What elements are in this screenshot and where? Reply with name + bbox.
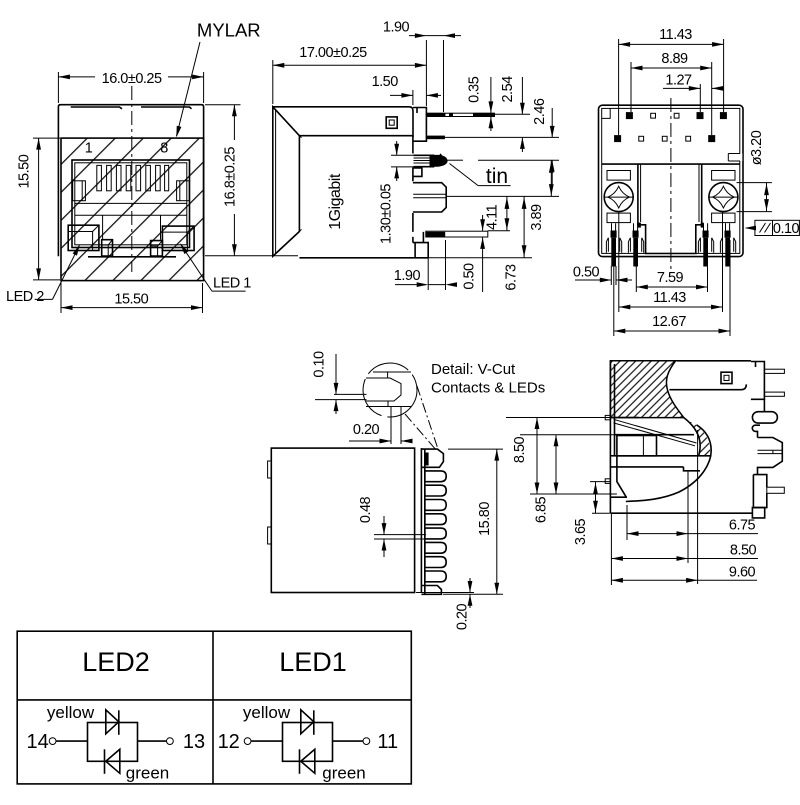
contact body [366, 378, 401, 401]
dim 1.90 bottom [395, 240, 446, 290]
center notch cube right [151, 241, 163, 256]
dim 6.75 [627, 471, 758, 563]
pads row 2 [614, 135, 715, 142]
window square [721, 372, 732, 383]
svg-text:11.43: 11.43 [659, 27, 692, 43]
dim 8.50 left [506, 418, 617, 495]
svg-text:0.48: 0.48 [358, 496, 374, 523]
svg-text:15.50: 15.50 [17, 154, 33, 188]
svg-text:MYLAR: MYLAR [197, 20, 261, 41]
latch circle left [607, 171, 630, 181]
svg-text:0.10: 0.10 [773, 221, 800, 237]
body [271, 448, 414, 592]
branch box [283, 723, 333, 762]
yellow diode [106, 710, 119, 734]
svg-text:11.43: 11.43 [653, 290, 686, 306]
zone divider [602, 163, 740, 165]
outer curve wall [626, 425, 711, 502]
hatched wall patch [685, 418, 711, 455]
SIDE VIEW [273, 20, 559, 293]
plastic post right [758, 438, 783, 475]
svg-text:1.90: 1.90 [383, 20, 410, 36]
left bump top [268, 461, 272, 478]
right wall notch [728, 154, 742, 162]
svg-text:Detail: V-Cut: Detail: V-Cut [431, 361, 516, 378]
left bump bottom [268, 527, 272, 544]
outer body [599, 105, 744, 256]
latch circle right [712, 171, 735, 181]
bottom right foot [413, 232, 428, 258]
svg-text:LED2: LED2 [82, 647, 150, 677]
svg-text:yellow: yellow [47, 703, 95, 722]
REAR VIEW [268, 448, 503, 630]
dim 15.50 left [33, 138, 60, 280]
svg-text:12.67: 12.67 [652, 314, 686, 330]
svg-text:13: 13 [183, 731, 205, 753]
left tabs [605, 415, 610, 419]
dim 3.65 [590, 482, 610, 514]
svg-text:green: green [322, 764, 365, 783]
leader dash-dot lines to comb [417, 386, 438, 449]
hatched cut region top-left [610, 361, 683, 418]
svg-text:1.27: 1.27 [665, 73, 692, 89]
svg-text:0.20: 0.20 [353, 422, 380, 438]
BOTTOM VIEW [573, 27, 800, 336]
LED TABLE [17, 631, 411, 784]
svg-text:Contacts & LEDs: Contacts & LEDs [431, 380, 545, 397]
right LED pocket [162, 226, 194, 250]
svg-text:0.50: 0.50 [573, 265, 600, 281]
left LED pocket [68, 225, 99, 250]
svg-text:8.50: 8.50 [512, 436, 528, 463]
tin blob [430, 155, 448, 167]
pcb tab top right [413, 108, 427, 142]
svg-text:1Gigabit: 1Gigabit [327, 173, 344, 230]
comb base wall [420, 448, 422, 592]
svg-text:LED 2: LED 2 [6, 289, 44, 305]
dim 0.10 [335, 354, 337, 414]
hook below pill [752, 425, 760, 437]
pcb tab right [751, 362, 765, 400]
flange outer body [58, 105, 203, 257]
wire [138, 740, 167, 742]
dim 12.67 [614, 240, 730, 336]
svg-text:0.20: 0.20 [455, 603, 471, 630]
contact slots x8 [97, 165, 169, 190]
contact comb top cap [421, 449, 443, 467]
svg-text:12: 12 [218, 731, 240, 753]
svg-text:8.89: 8.89 [661, 51, 688, 67]
dim 0.35 [490, 77, 492, 131]
center notch cube left [102, 240, 113, 256]
dim 0.20 rear bottom [416, 578, 474, 608]
svg-text:1: 1 [85, 141, 93, 157]
comb fingers x8 [425, 471, 446, 582]
pin 2 hollow [764, 392, 784, 396]
dim 11.43 bottom [619, 212, 723, 312]
ext line pin3 top [488, 230, 510, 232]
dim 9.60 [611, 430, 757, 584]
parallelism tolerance box 0.10 [746, 220, 799, 235]
svg-text:2.54: 2.54 [500, 76, 516, 103]
pin 1 hollow [764, 369, 784, 373]
mylar notch left [71, 107, 122, 109]
pin towers [606, 223, 735, 266]
right edge segments [412, 136, 414, 243]
svg-text:0.50: 0.50 [462, 263, 478, 290]
svg-text:1.90: 1.90 [394, 268, 421, 284]
body outline [273, 107, 413, 137]
light pipe diagonal band [614, 419, 697, 443]
window square [386, 117, 397, 128]
DETAIL VIEW [312, 351, 546, 451]
svg-text:7.59: 7.59 [657, 270, 684, 286]
svg-text:2.46: 2.46 [532, 98, 548, 125]
dim 0.20 [349, 407, 410, 445]
dim ø3.20 [737, 183, 772, 212]
dim 0.50 bottom [575, 266, 632, 285]
dim 1.50 [390, 90, 441, 105]
pin 1 [426, 113, 494, 116]
dim 2.46 [445, 108, 560, 184]
wire [333, 740, 364, 742]
green diode [106, 749, 120, 773]
corner notch top-left [602, 108, 611, 118]
wire [56, 740, 88, 742]
svg-text:8: 8 [160, 141, 168, 157]
edge below tab [763, 399, 765, 411]
mid reference line [446, 195, 559, 197]
svg-text:ø3.20: ø3.20 [749, 130, 765, 165]
dim 8.50 bottom [611, 513, 758, 585]
bottom chord [366, 406, 411, 408]
cavity outer [72, 160, 190, 248]
step below tin [413, 168, 422, 176]
interior box [617, 436, 657, 456]
svg-text:8.50: 8.50 [730, 543, 757, 559]
dim 3.89 [550, 160, 552, 196]
green diode [301, 749, 315, 773]
central cavity [638, 164, 702, 253]
bottom peg [752, 508, 764, 518]
dim 8.89 [631, 62, 712, 135]
body outline [610, 361, 752, 513]
comb bottom cap [421, 586, 441, 595]
svg-text:yellow: yellow [243, 703, 291, 722]
dim 6.73 [428, 196, 532, 257]
cavity bottom thick line [88, 256, 176, 258]
svg-text:17.00±0.25: 17.00±0.25 [299, 45, 367, 61]
svg-text:green: green [126, 764, 169, 783]
dim 15.50 bottom [61, 283, 203, 313]
left latch window [73, 181, 86, 201]
svg-text:16.8±0.25: 16.8±0.25 [223, 147, 239, 207]
detail circle [363, 363, 417, 417]
mylar notch right [141, 107, 192, 109]
svg-text:3.65: 3.65 [573, 518, 589, 545]
dim 11.43 top [619, 39, 724, 135]
contact section top chord [373, 371, 411, 373]
right foot and pin [753, 475, 766, 508]
lower cavity walls [102, 215, 104, 240]
top plate bottom edge [669, 384, 746, 389]
left inner profile to foot [610, 456, 627, 497]
dim 4.11 [506, 196, 508, 230]
table frame [17, 631, 411, 784]
centerline [131, 86, 133, 272]
dim 1.30±0.05 (tin thickness) [391, 141, 414, 181]
svg-text:14: 14 [26, 731, 48, 753]
svg-text:6.73: 6.73 [504, 264, 520, 291]
LED2 circuit [26, 703, 205, 783]
shelf lines [75, 202, 187, 204]
svg-text:3.89: 3.89 [529, 204, 545, 231]
interior shelf lines [610, 417, 638, 419]
centerline [670, 98, 672, 272]
pin 2 [426, 136, 445, 140]
svg-text:LED1: LED1 [279, 647, 347, 677]
body bottom [299, 257, 428, 259]
dim 7.59 [636, 266, 707, 292]
svg-text:0.10: 0.10 [312, 351, 328, 378]
dim 0.48 [374, 516, 426, 557]
SECTION VIEW [506, 361, 784, 585]
pads row 1 [626, 112, 727, 119]
bezel hatched face [61, 138, 204, 281]
0.10 reference lines [334, 393, 367, 395]
dim 16.8±0.25 [205, 105, 298, 256]
svg-text:11: 11 [377, 731, 398, 753]
LED1 circuit [218, 703, 399, 783]
dim 2.54 [495, 77, 531, 152]
cavity inner [75, 163, 187, 245]
tin contact pill (stadium) [752, 412, 777, 423]
plastic post trapezoid [413, 183, 446, 212]
svg-text:LED 1: LED 1 [213, 276, 251, 292]
dim 16.0±0.25 [58, 72, 203, 103]
svg-text:4.11: 4.11 [484, 204, 500, 230]
svg-text:15.50: 15.50 [114, 292, 148, 308]
dim 1.27 [663, 84, 724, 112]
dim 1.90 top [409, 36, 461, 112]
svg-text:tin: tin [486, 165, 508, 188]
dim 0.50 (pin thickness) [482, 215, 484, 292]
branch box [88, 723, 138, 762]
dim 17.00±0.25 [273, 40, 427, 106]
flange bottom line [299, 135, 413, 137]
pin 3 hollow [426, 231, 488, 237]
svg-text:0.35: 0.35 [467, 76, 483, 103]
tin contact [414, 155, 434, 166]
wire [251, 740, 283, 742]
svg-text:16.0±0.25: 16.0±0.25 [102, 71, 162, 87]
right latch window [177, 181, 190, 201]
svg-text:6.85: 6.85 [534, 496, 550, 523]
svg-text:1.30±0.05: 1.30±0.05 [379, 184, 395, 244]
inner S-curve wall [684, 418, 700, 456]
dim 15.80 [443, 449, 503, 594]
svg-text:15.80: 15.80 [477, 502, 493, 536]
svg-text:9.60: 9.60 [729, 564, 756, 580]
svg-text:1.50: 1.50 [372, 74, 399, 90]
lower shelf [610, 466, 683, 468]
FRONT VIEW [6, 20, 298, 314]
dim 6.85 left [520, 435, 615, 494]
yellow diode [301, 710, 314, 734]
svg-text:6.75: 6.75 [729, 518, 756, 534]
